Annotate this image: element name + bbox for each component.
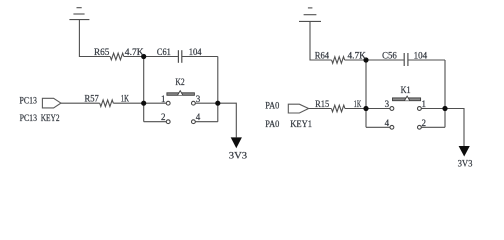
svg-text:PA0: PA0 xyxy=(265,100,280,110)
svg-text:2: 2 xyxy=(161,112,166,122)
node junction R15/K1 xyxy=(363,106,368,111)
svg-text:3: 3 xyxy=(385,99,390,109)
node junction R64/C56 xyxy=(363,57,368,62)
port PC13 xyxy=(42,98,61,108)
port PA0 xyxy=(288,104,308,113)
resistor R15 xyxy=(331,105,345,112)
wire R64 to C56 xyxy=(345,59,404,61)
svg-text:K1: K1 xyxy=(401,85,411,95)
svg-text:1K: 1K xyxy=(354,99,362,109)
svg-text:104: 104 xyxy=(189,47,202,57)
wire port to R57 xyxy=(61,102,100,104)
node junction K2/3V3 xyxy=(215,101,220,106)
wire pin1 K1 to node xyxy=(421,108,445,110)
svg-text:R65: R65 xyxy=(94,47,110,57)
svg-text:3: 3 xyxy=(196,94,201,104)
svg-text:4: 4 xyxy=(196,112,201,122)
wire C56 to right corner xyxy=(408,59,445,61)
switch K2 button bar xyxy=(167,93,195,96)
wire bottom-left bracket K1 xyxy=(366,126,390,128)
wire node to pin3 K1 xyxy=(366,108,390,110)
wire right vertical left circuit xyxy=(217,57,219,122)
svg-text:4: 4 xyxy=(385,118,390,128)
svg-text:3V3: 3V3 xyxy=(458,159,473,169)
svg-text:C61: C61 xyxy=(157,47,171,57)
wire bottom-right bracket K2 xyxy=(195,121,218,123)
wire R65 to C61 xyxy=(124,56,178,58)
svg-text:R57: R57 xyxy=(85,93,100,103)
resistor R64 xyxy=(332,57,345,64)
svg-text:4.7K: 4.7K xyxy=(348,50,367,60)
wire node to 3V3 left xyxy=(218,103,237,137)
wire node to pin1 K2 xyxy=(144,102,167,104)
wire gnd stem left xyxy=(79,20,110,57)
wire pin3 K2 to node xyxy=(195,102,218,104)
wire R57 to node xyxy=(113,102,143,104)
svg-text:1: 1 xyxy=(161,94,166,104)
svg-text:C56: C56 xyxy=(382,50,397,60)
svg-text:3V3: 3V3 xyxy=(229,151,248,161)
wire R15 to node xyxy=(345,108,366,110)
switch K1 pin 2 xyxy=(418,125,422,129)
wire C61 to right corner xyxy=(182,56,218,58)
node junction K1/3V3 xyxy=(442,106,447,111)
capacitor C61 xyxy=(178,50,181,63)
switch K2 pin 3 xyxy=(192,101,196,105)
switch K1 button caret xyxy=(405,96,410,100)
power 3V3 arrow left xyxy=(231,137,242,148)
switch K2 pin 4 xyxy=(192,120,196,124)
wire node to 3V3 right xyxy=(445,109,464,147)
svg-text:1K: 1K xyxy=(121,93,130,103)
wire left vertical left circuit xyxy=(143,57,145,122)
wire bottom-left bracket K2 xyxy=(144,121,167,123)
svg-text:R15: R15 xyxy=(315,99,330,109)
svg-text:4.7K: 4.7K xyxy=(125,47,144,57)
switch K1 pin 1 xyxy=(418,107,422,111)
svg-text:K2: K2 xyxy=(175,77,184,87)
wire right vertical right circuit xyxy=(444,60,446,127)
switch K2 button caret xyxy=(178,91,183,96)
wire gnd stem right xyxy=(310,21,332,60)
node junction R57/K2 xyxy=(141,101,146,106)
svg-text:R64: R64 xyxy=(315,50,330,60)
svg-text:PA0: PA0 xyxy=(265,119,280,129)
switch K1 pin 4 xyxy=(390,125,394,129)
wire bottom-right bracket K1 xyxy=(421,126,445,128)
switch K2 pin 1 xyxy=(166,101,170,105)
svg-text:1: 1 xyxy=(422,99,427,109)
svg-text:PC13: PC13 xyxy=(20,95,38,105)
svg-text:104: 104 xyxy=(414,50,428,60)
resistor R57 xyxy=(100,100,114,107)
switch K1 pin 3 xyxy=(390,107,394,111)
svg-text:KEY1: KEY1 xyxy=(290,119,312,129)
switch K2 pin 2 xyxy=(166,120,170,124)
ground (left circuit) xyxy=(69,8,89,20)
svg-text:KEY2: KEY2 xyxy=(41,113,60,123)
node junction R65/C61 xyxy=(141,54,146,59)
power 3V3 arrow right xyxy=(459,146,470,157)
svg-text:2: 2 xyxy=(422,118,427,128)
ground (right circuit) xyxy=(299,8,321,22)
wire left vertical right circuit xyxy=(365,60,367,127)
capacitor C56 xyxy=(404,53,408,66)
resistor R65 xyxy=(110,53,124,60)
svg-text:PC13: PC13 xyxy=(20,113,38,123)
wire port to R15 xyxy=(309,108,332,110)
switch K1 button bar xyxy=(393,98,421,101)
